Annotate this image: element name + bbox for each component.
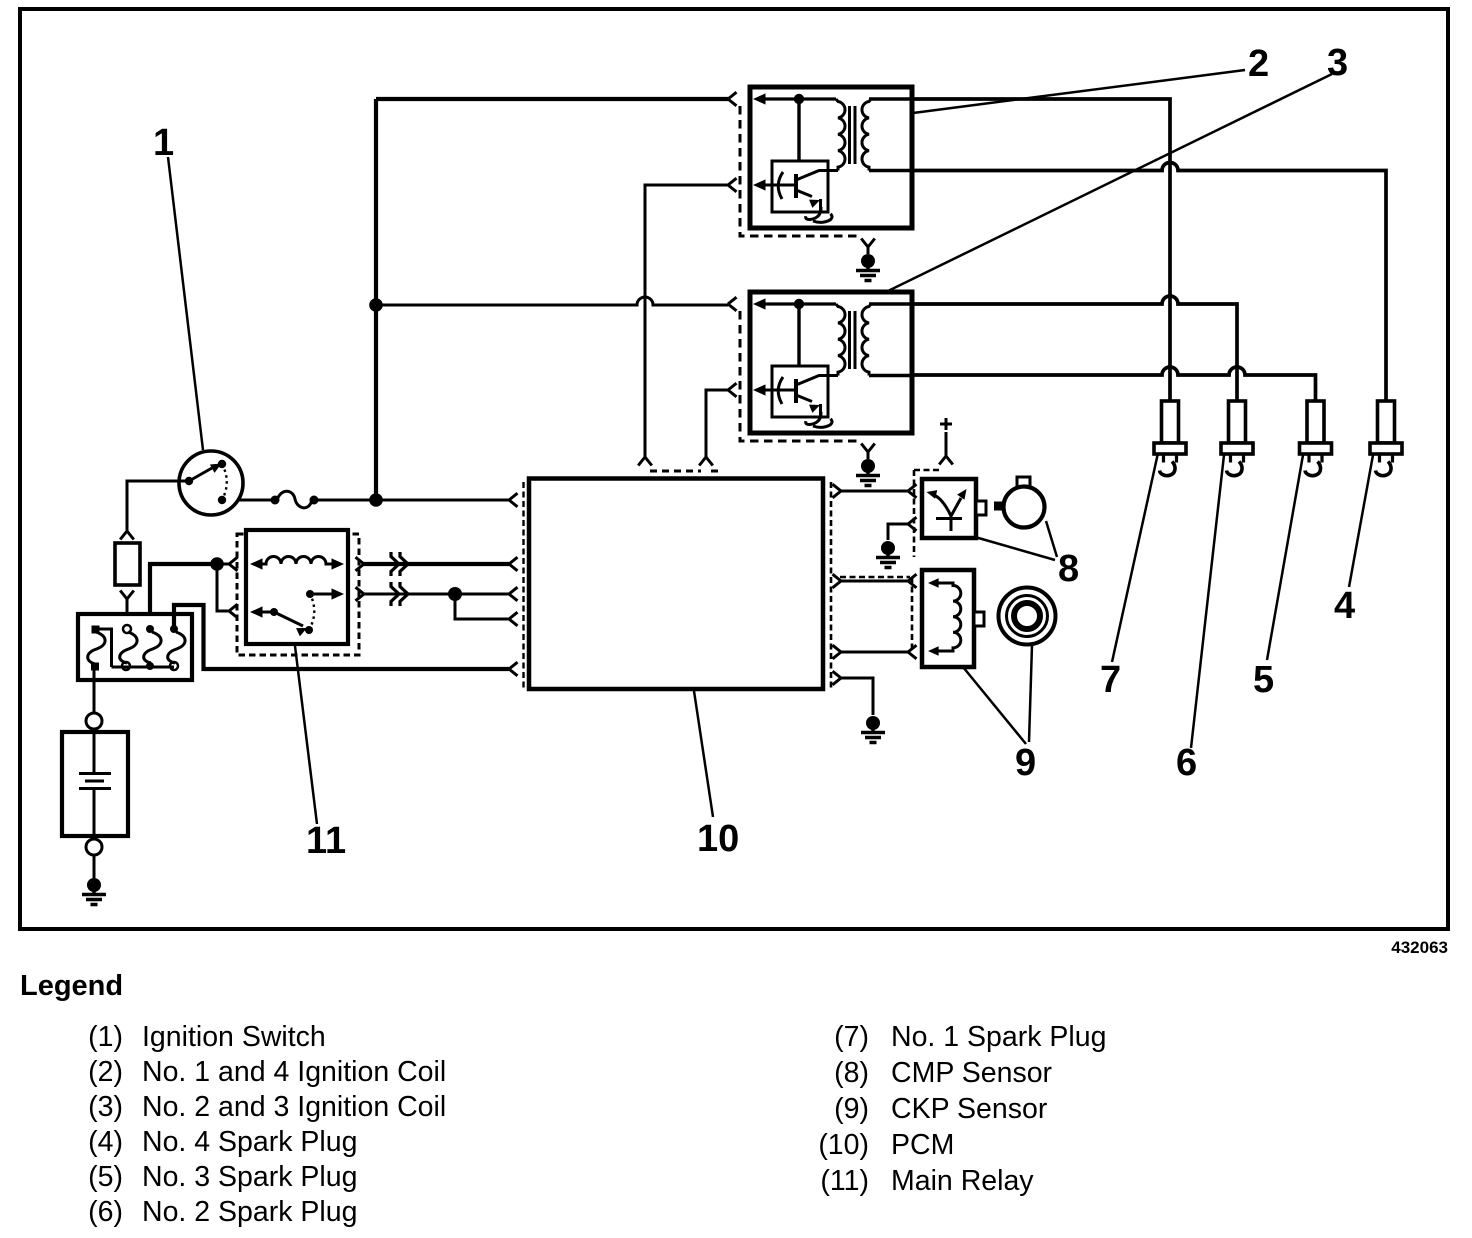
ignition coil No.2 and 3 (3) [728,292,912,486]
battery ground [82,878,106,905]
CMP rotor [994,477,1045,528]
svg-text:No. 2 Spark Plug: No. 2 Spark Plug [142,1196,357,1228]
junction node coil feed [369,298,383,312]
PCM ground [861,716,885,743]
CMP sensor (8) [922,479,986,538]
fuse 3 [146,625,154,633]
svg-text:432063: 432063 [1391,938,1448,957]
wire: fusible link to fuse box [126,599,129,628]
wire: ignition switch feed from fusible link [127,481,186,531]
relay switch [250,606,263,617]
svg-text:3: 3 [1327,42,1348,84]
connector below fusible link [120,591,134,600]
junction node IGN [369,493,383,507]
wire: coil 1 secondary to spark plug 4 (hop at plug 1 wire) [912,163,1386,402]
svg-text:(9): (9) [834,1093,869,1125]
wire: fuse 4 feed to PCM [174,605,509,669]
svg-text:9: 9 [1015,742,1036,784]
wire: feed to coil 2 (hop over x=645) [376,297,728,305]
in-line connector pair on relay coil output [391,552,408,576]
wire: PCM ground pin [841,678,873,715]
label line for PCM [694,691,713,817]
svg-text:(3): (3) [88,1091,123,1123]
fusible link [115,543,140,585]
svg-text:4: 4 [1334,585,1355,627]
wire: junction to relay coil pin [217,563,229,566]
label lines for CMP sensor [975,521,1057,560]
svg-text:No. 1 Spark Plug: No. 1 Spark Plug [891,1021,1106,1053]
dashed connector boundary left of PCM [522,482,524,690]
wire: CMP sensor ground pin [888,524,908,540]
bus wire linking fuse bottoms [112,666,175,669]
svg-text:2: 2 [1248,43,1269,85]
wire: PCM to coil 2 driver base [706,390,728,457]
wire: coil 2 secondary to spark plug 2 (hop at plug 1 wire) [912,296,1237,401]
wire: junction down to relay switch pin [217,564,229,611]
connector at PCM top pin 2 [699,457,713,466]
wire: relay coil output to PCM [364,562,509,566]
svg-text:Ignition Switch: Ignition Switch [142,1021,326,1053]
svg-text:10: 10 [697,818,739,860]
svg-text:6: 6 [1176,742,1197,784]
svg-text:No. 3 Spark Plug: No. 3 Spark Plug [142,1161,357,1193]
label line for coil 2 [886,74,1332,292]
junction node on relay switch output [448,587,462,601]
ignition coil No.1 and 4 (2) [728,87,912,281]
svg-text:PCM: PCM [891,1129,954,1161]
PCM pin connector forks (left side) [509,493,518,507]
border frame [20,9,1448,929]
dashed connector boundary at CKP sensor [840,577,912,652]
fuse 2 [123,625,131,633]
spark plug 3 [1300,401,1332,476]
relay box [246,530,348,644]
connector at relay switch pin [229,604,238,618]
svg-text:7: 7 [1100,659,1121,701]
junction node relay feed [210,557,224,571]
svg-text:(8): (8) [834,1057,869,1089]
wire: branch to second PCM pin [455,594,509,619]
fuse symbol in ignition feed [271,491,319,508]
spark plug 4 [1370,401,1402,476]
label line for spark plug 3 [1267,455,1303,660]
dashed connector boundary at CMP sensor [914,470,939,557]
wire: coil 1 secondary to spark plug 1 [912,99,1170,401]
svg-text:Main Relay: Main Relay [891,1165,1034,1197]
svg-text:(6): (6) [88,1196,123,1228]
svg-text:5: 5 [1253,659,1274,701]
label line for coil 1 [913,70,1245,113]
wire: fuse to junction to PCM [316,499,509,502]
dashed connector boundary of main relay [237,534,359,655]
fuse 1 [92,626,100,634]
svg-text:(11): (11) [820,1165,869,1197]
connector leaving relay coil [356,557,365,571]
connector at fusible link top [120,531,134,540]
wire: coil 2 secondary to spark plug 3 (hops at plug 1 and plug 2 wires) [912,367,1316,401]
label lines for CKP sensor [963,645,1032,744]
svg-text:1: 1 [153,122,174,164]
svg-text:11: 11 [306,820,346,862]
svg-text:(4): (4) [88,1126,123,1158]
CMP pin ground [876,541,900,568]
svg-text:(2): (2) [88,1056,123,1088]
PCM (10) [529,479,823,690]
svg-text:No. 2 and 3 Ignition Coil: No. 2 and 3 Ignition Coil [142,1091,446,1123]
connector at PCM top pin 1 [638,457,652,466]
ignition switch S1 [179,451,243,515]
fuse 4 [170,625,178,633]
svg-text:(1): (1) [88,1021,123,1053]
svg-text:Legend: Legend [20,970,123,1002]
CKP reluctor ring [999,588,1056,645]
label line for main relay [295,646,317,824]
battery [62,667,128,878]
spark plug 1 [1154,401,1186,476]
svg-text:(7): (7) [834,1021,869,1053]
wire: feed to coil 1 [376,97,728,101]
CKP sensor (9) [922,570,984,667]
wire: PCM to CMP sensor signal [841,490,908,493]
spark plug 2 [1221,401,1253,476]
label line for spark plug 2 [1191,455,1224,748]
connector at relay coil pin [229,557,238,571]
dashed connector boundary right of PCM [830,482,833,690]
svg-text:CKP Sensor: CKP Sensor [891,1093,1048,1125]
wire: PCM to CKP sensor low [841,651,908,654]
label line for spark plug 1 [1112,453,1158,662]
wire: PCM to CKP sensor high [841,580,908,583]
dashed connector boundary at PCM top [650,470,718,473]
wire: main feed trunk [374,99,378,500]
connector leaving relay switch [356,587,365,601]
wire: switch to fuse [238,499,272,502]
wire: relay switch output to PCM [364,593,509,596]
wire: fuse box to relay feed junction [150,564,217,628]
label line for spark plug 4 [1349,455,1373,587]
fuse box [78,614,192,680]
main relay K1 [237,530,359,655]
svg-text:(10): (10) [818,1129,869,1161]
label line for ignition switch [168,157,203,450]
in-line connector pair on relay switch output [391,582,408,606]
wire: PCM to coil 1 driver base [645,185,728,457]
svg-text:(5): (5) [88,1161,123,1193]
svg-text:8: 8 [1058,548,1079,590]
relay coil [250,558,263,569]
svg-text:No. 1 and 4 Ignition Coil: No. 1 and 4 Ignition Coil [142,1056,446,1088]
svg-text:No. 4 Spark Plug: No. 4 Spark Plug [142,1126,357,1158]
battery positive connector for CMP sensor [939,418,953,465]
svg-text:CMP Sensor: CMP Sensor [891,1057,1053,1089]
